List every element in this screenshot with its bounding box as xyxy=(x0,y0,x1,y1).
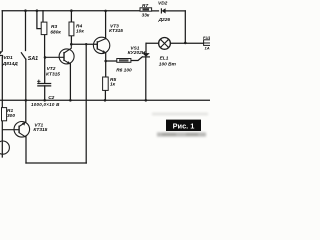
svg-text:КУ202Н: КУ202Н xyxy=(128,50,146,56)
svg-text:1000,0×10 В: 1000,0×10 В xyxy=(31,102,60,107)
svg-text:VD1: VD1 xyxy=(3,55,13,61)
svg-text:VD2: VD2 xyxy=(158,1,168,7)
svg-text:R6 100: R6 100 xyxy=(116,67,132,73)
svg-text:EL1: EL1 xyxy=(160,55,169,61)
svg-text:1А: 1А xyxy=(205,45,210,50)
svg-text:Д226: Д226 xyxy=(158,17,171,23)
svg-text:33к: 33к xyxy=(142,12,150,18)
svg-text:КТ315: КТ315 xyxy=(46,71,60,77)
svg-text:Д814Д: Д814Д xyxy=(2,61,18,67)
svg-text:1к: 1к xyxy=(110,82,116,88)
svg-text:300: 300 xyxy=(7,113,15,119)
svg-text:SA1: SA1 xyxy=(28,56,38,62)
svg-text:R7: R7 xyxy=(142,3,148,9)
svg-text:R3: R3 xyxy=(51,24,57,30)
svg-text:КТ315: КТ315 xyxy=(109,28,123,34)
svg-text:10к: 10к xyxy=(76,28,84,34)
svg-text:VT2: VT2 xyxy=(47,66,56,72)
svg-text:680к: 680к xyxy=(50,30,61,36)
svg-text:FU1: FU1 xyxy=(203,35,210,40)
svg-text:КТ315: КТ315 xyxy=(33,127,47,133)
svg-text:100 Вт: 100 Вт xyxy=(159,61,177,67)
svg-text:C2: C2 xyxy=(48,95,54,101)
svg-text:Рис. 1: Рис. 1 xyxy=(173,121,195,130)
